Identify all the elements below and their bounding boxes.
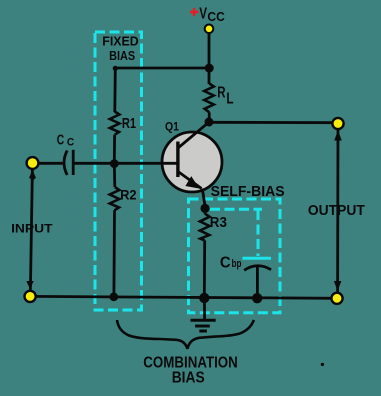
wire input vertical <box>30 169 32 290</box>
svg-text:R2: R2 <box>120 188 137 203</box>
label Cbp <box>220 254 242 271</box>
dashed box FIXED BIAS <box>95 32 142 310</box>
wire R1 to base node <box>113 135 116 164</box>
terminal VCC <box>205 25 214 34</box>
transistor Q1 base bar <box>176 142 179 178</box>
terminal output bottom <box>331 293 342 304</box>
wire input to CC <box>38 162 63 165</box>
wire Cbp to bottom rail <box>256 266 259 298</box>
svg-text:R: R <box>217 84 226 101</box>
svg-text:C: C <box>220 254 231 271</box>
terminal input bottom <box>25 291 36 302</box>
label VCC <box>199 6 225 25</box>
transistor Q1 body <box>162 132 222 192</box>
wire CC to base <box>75 162 178 165</box>
wire collector node to output top <box>209 121 338 124</box>
label CC <box>57 132 75 148</box>
node corner dot <box>113 66 118 71</box>
resistor R2 <box>110 187 120 210</box>
node base junction <box>110 159 119 168</box>
svg-text:Q1: Q1 <box>165 121 180 133</box>
output arrow bottom <box>334 281 342 291</box>
svg-text:C: C <box>67 136 75 148</box>
svg-text:CC: CC <box>207 9 225 24</box>
wire output vertical <box>336 129 339 292</box>
svg-text:BIAS: BIAS <box>109 48 135 63</box>
capacitor CC right plate <box>72 150 75 175</box>
node R3 bottom junction <box>199 293 209 303</box>
dashed inner line self-bias <box>210 209 262 256</box>
wire emitter node to R3 <box>203 208 206 213</box>
wire top horizontal to fixed-bias <box>115 67 209 70</box>
svg-text:FIXED: FIXED <box>102 35 138 49</box>
node VCC junction <box>205 64 214 73</box>
wire R2 to bottom rail <box>113 210 116 296</box>
svg-text:R3: R3 <box>210 215 227 231</box>
svg-text:BIAS: BIAS <box>172 370 205 387</box>
wire VCC vertical <box>208 34 211 85</box>
wire base node to R2 <box>113 164 116 188</box>
label + (red) <box>190 8 198 16</box>
svg-text:OUTPUT: OUTPUT <box>308 202 365 219</box>
capacitor CC left plate <box>64 151 67 176</box>
node emitter junction <box>200 204 209 213</box>
capacitor Cbp top plate (cyan) <box>243 257 272 260</box>
svg-text:SELF-BIAS: SELF-BIAS <box>211 184 285 200</box>
resistor R1 <box>110 112 120 135</box>
transistor Q1 emitter lead <box>178 172 202 189</box>
svg-text:C: C <box>57 132 65 148</box>
resistor RL <box>204 84 214 113</box>
output arrow top <box>334 131 342 141</box>
input arrow bottom <box>26 281 33 289</box>
ground <box>191 298 216 331</box>
node Cbp bottom junction <box>252 293 262 303</box>
brace combination bias <box>117 320 254 349</box>
wire RL to collector node <box>208 112 211 122</box>
label RL <box>217 84 233 107</box>
terminal output top <box>332 118 343 129</box>
node collector junction <box>205 118 214 127</box>
transistor Q1 collector lead <box>178 122 209 148</box>
terminal input top <box>27 157 39 169</box>
svg-text:INPUT: INPUT <box>11 222 53 236</box>
svg-text:L: L <box>226 91 233 108</box>
node R2 bottom junction <box>109 292 118 301</box>
dashed box SELF-BIAS <box>189 199 281 313</box>
speck <box>321 363 324 366</box>
svg-text:V: V <box>199 6 207 23</box>
wire R3 to bottom rail <box>203 240 206 297</box>
transistor Q1 emitter arrow <box>187 177 198 187</box>
wire emitter to self-bias node <box>202 189 205 207</box>
resistor R3 <box>200 214 210 241</box>
wire bottom rail <box>30 296 337 298</box>
svg-text:bp: bp <box>232 258 242 270</box>
wire fixed-bias drop to R1 <box>113 68 116 112</box>
capacitor Cbp bottom plate <box>244 266 271 271</box>
input arrow top <box>29 170 36 178</box>
svg-text:R1: R1 <box>122 116 136 132</box>
wire base inside transistor <box>161 162 178 165</box>
